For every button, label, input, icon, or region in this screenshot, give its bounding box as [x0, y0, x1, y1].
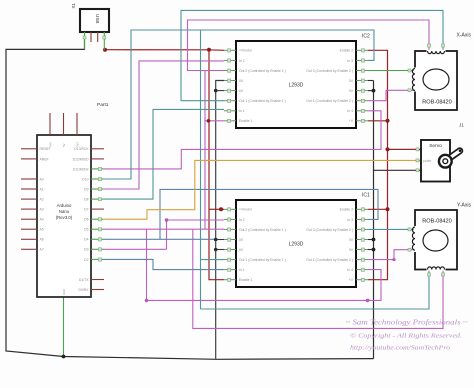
Arduino bottom pin GND: [62, 289, 66, 295]
wire red left rail to IC1 Vmotor and Enable1: [209, 50, 224, 280]
svg-text:0V: 0V: [239, 238, 244, 242]
svg-text:D13/SCK: D13/SCK: [74, 147, 89, 151]
svg-text:http://youtube.com/SamTechPro: http://youtube.com/SamTechPro: [350, 345, 451, 352]
svg-text:In 3: In 3: [347, 218, 353, 222]
svg-text:Servo: Servo: [429, 143, 442, 149]
junction IC1 0V right rail lower: [372, 248, 376, 252]
svg-text:RESET: RESET: [40, 147, 51, 151]
svg-text:0V: 0V: [349, 89, 354, 93]
svg-text:Out 1 (Controlled by Enable 1: Out 1 (Controlled by Enable 1 ): [239, 258, 286, 262]
IC2 pins right: [306, 49, 368, 124]
junction IC1 0V left rail lower: [214, 248, 218, 252]
junction IC1 +Vmotor tap: [219, 207, 223, 211]
svg-text:Out 4 (Controlled by Enable 2: Out 4 (Controlled by Enable 2 ): [306, 258, 353, 262]
svg-text:IC1: IC1: [362, 193, 370, 199]
svg-text:A0: A0: [40, 177, 44, 181]
svg-text:© Copyright - All Rights Reser: © Copyright - All Rights Reserved.: [350, 333, 462, 340]
svg-text:In 2: In 2: [239, 218, 245, 222]
svg-text:D2: D2: [84, 258, 88, 262]
wire magenta D11 to IC2 In4: [103, 111, 381, 169]
svg-text:+Vmotor: +Vmotor: [239, 208, 253, 212]
stepper/servo connection pads: [408, 44, 445, 276]
svg-text:D10: D10: [82, 177, 88, 181]
wire magenta D3 riser: [103, 248, 167, 250]
wire magenta IC2 Out4 to X-axis coil left-bottom: [368, 90, 415, 100]
svg-text:Enable 2: Enable 2: [340, 208, 353, 212]
svg-text:J1: J1: [459, 123, 464, 128]
wire teal D8 to IC2 In1: [103, 109, 224, 199]
svg-text:Out 2 (Controlled by Enable 1: Out 2 (Controlled by Enable 1 ): [239, 69, 286, 73]
IC1 pins right: [306, 208, 368, 283]
svg-text:AREF: AREF: [40, 157, 49, 161]
wire Arduino GND green to bottom rail: [63, 297, 65, 357]
wire black left GND rail with IC 0V staples: [216, 81, 224, 359]
wire red right rail IC2 Enable2 to IC1 +V, servo +: [368, 50, 421, 279]
svg-text:D9: D9: [84, 187, 88, 191]
svg-text:Out 2 (Controlled by Enable 1: Out 2 (Controlled by Enable 1 ): [239, 228, 286, 232]
svg-text:GND: GND: [62, 289, 66, 295]
svg-text:D0/RX: D0/RX: [79, 288, 90, 292]
wire teal IC2 Out1 to X-axis coil top-right: [181, 10, 443, 100]
Arduino Nano U: box: [37, 135, 91, 297]
IC2 pins left: [224, 49, 286, 124]
servo J1: [421, 140, 461, 182]
junction IC1 0V right rail upper: [372, 238, 376, 242]
svg-text:D6: D6: [84, 218, 88, 222]
Arduino pin pads: [98, 167, 101, 261]
svg-text:D7: D7: [84, 208, 88, 212]
wire magenta IC1 Out2 to Y-axis coil bottom-right: [193, 229, 443, 328]
svg-text:IC2: IC2: [362, 34, 370, 40]
svg-text:A6: A6: [40, 238, 44, 242]
svg-text:Out 4 (Controlled by Enable 2: Out 4 (Controlled by Enable 2 ): [306, 99, 353, 103]
svg-text:0V: 0V: [349, 238, 354, 242]
svg-text:D4: D4: [84, 238, 88, 242]
svg-text:Out 3 (Controlled by Enable 2: Out 3 (Controlled by Enable 2 ): [306, 228, 353, 232]
stepper motor M2 Y-Axis ROB-08420: [412, 210, 457, 270]
wire GND right vertical rail (servo/IC 0V): [368, 81, 421, 359]
junction Arduino GND to bottom rail: [62, 355, 66, 359]
op-amp driver IC1 L293D box: [236, 200, 356, 287]
svg-text:X1: X1: [71, 3, 76, 9]
svg-text:pulse: pulse: [423, 159, 431, 163]
wire magenta D5 / IC1 Out2 row and In4 IC1: [103, 229, 381, 300]
svg-text:D5: D5: [84, 228, 88, 232]
junction D5 riser bottom: [145, 299, 149, 303]
svg-text:5V: 5V: [62, 143, 66, 147]
wire steelblue D4 to IC1 In3: [103, 189, 378, 239]
IC1 pins left: [224, 208, 286, 283]
svg-text:In 4: In 4: [347, 109, 353, 113]
wire GND black loop from USB to bottom rail: [6, 40, 374, 359]
svg-text:Out 1 (Controlled by Enable 1: Out 1 (Controlled by Enable 1 ): [239, 99, 286, 103]
svg-text:Y-Axis: Y-Axis: [457, 203, 471, 209]
svg-text:In 1: In 1: [239, 268, 245, 272]
svg-text:0V: 0V: [349, 248, 354, 252]
svg-text:In 4: In 4: [347, 268, 353, 272]
wire green IC2 Out3 to X-axis coil left-top: [368, 70, 415, 72]
junction IC2 0V left rail: [214, 89, 218, 93]
junction IC1 Enable2 tap: [386, 207, 390, 211]
svg-text:A1: A1: [40, 187, 44, 191]
svg-text:A7: A7: [40, 248, 44, 252]
svg-text:USB: USB: [95, 14, 100, 23]
svg-text:Enable 1: Enable 1: [239, 278, 252, 282]
svg-text:(Rev3.0): (Rev3.0): [56, 215, 73, 220]
junction IC1 Out4 corner: [392, 258, 395, 261]
svg-text:0V: 0V: [349, 79, 354, 83]
junction IC2 0V right rail: [372, 89, 376, 93]
wire orange D6 to servo pulse: [103, 160, 421, 219]
junction IC2 Enable1 tap: [207, 119, 211, 123]
wire magenta riser to IC2 Enable1: [205, 71, 224, 230]
svg-text:X-Axis: X-Axis: [457, 33, 472, 39]
svg-text:Arduino: Arduino: [57, 203, 72, 208]
Arduino top pins VIN 5V 3V3: [48, 113, 79, 147]
wire steelblue D10 to IC2 In3: [103, 30, 374, 179]
svg-text:0V: 0V: [239, 79, 244, 83]
junction at USB +V node: [103, 48, 107, 52]
svg-text:0V: 0V: [239, 89, 244, 93]
svg-text:+V: +V: [349, 278, 354, 282]
svg-text:In 1: In 1: [239, 109, 245, 113]
svg-text:D1/TX: D1/TX: [79, 278, 89, 282]
svg-text:Nano: Nano: [59, 209, 70, 214]
wire steelblue D2 to IC1 In1: [103, 259, 224, 269]
Arduino left pins RESET AREF A0-A7: [21, 147, 51, 252]
junction magenta bottom run: [366, 299, 370, 303]
svg-text:Enable 2: Enable 2: [340, 49, 353, 53]
wire magenta IC1 Out4 to Y-axis coil left-bottom: [368, 250, 415, 260]
junction IC1 0V left rail upper: [214, 238, 218, 242]
svg-text:D11/MOSI: D11/MOSI: [73, 167, 89, 171]
svg-text:Enable 1: Enable 1: [239, 119, 252, 123]
svg-text:Part1: Part1: [97, 102, 109, 108]
watermark text: [346, 319, 468, 352]
wire teal IC1 Out1 to Y-axis coil bottom-left: [201, 30, 430, 309]
op-amp driver IC2 L293D box: [236, 41, 356, 128]
wire magenta D9 to IC2 In2: [103, 61, 224, 189]
svg-text:+Vmotor: +Vmotor: [239, 49, 253, 53]
junction servo +V tap: [386, 147, 390, 151]
svg-text:3V3: 3V3: [75, 142, 79, 147]
svg-text:L293D: L293D: [289, 242, 304, 248]
svg-text:Out 3 (Controlled by Enable 2: Out 3 (Controlled by Enable 2 ): [306, 69, 353, 73]
svg-text:In 3: In 3: [347, 59, 353, 63]
wire magenta IC2 Out2 to X-axis coil top-left: [188, 20, 430, 71]
svg-text:A4: A4: [40, 218, 44, 222]
svg-text:+V: +V: [349, 119, 354, 123]
junction D3 riser to IC1 In2: [165, 218, 169, 222]
junction red rail top: [207, 48, 211, 52]
wire magenta to IC1 In2: [167, 220, 225, 249]
svg-text:D3: D3: [84, 248, 88, 252]
svg-text:L293D: L293D: [289, 83, 304, 89]
wire teal IC1 Out3 to Y-axis coil left-top: [368, 228, 415, 230]
svg-text:A5: A5: [40, 228, 44, 232]
svg-text:D12/MISO: D12/MISO: [73, 157, 89, 161]
svg-text:D8: D8: [84, 198, 88, 202]
junction IC2 +V tap: [386, 119, 390, 123]
svg-text:In 2: In 2: [239, 59, 245, 63]
svg-text:0V: 0V: [239, 248, 244, 252]
svg-text:ROB-08420: ROB-08420: [422, 219, 452, 225]
svg-text:A3: A3: [40, 208, 44, 212]
USB connector X1: [80, 9, 109, 50]
svg-text:ROB-08420: ROB-08420: [422, 100, 452, 106]
wire +V red from USB to IC2 Vmotor: [105, 49, 224, 52]
Arduino right pins D13..D0: [73, 147, 104, 292]
svg-text:~ Sam Technology Professionals: ~ Sam Technology Professionals ~: [346, 319, 468, 327]
stepper motor M1 X-Axis ROB-08420: [412, 51, 457, 110]
svg-text:A2: A2: [40, 198, 44, 202]
